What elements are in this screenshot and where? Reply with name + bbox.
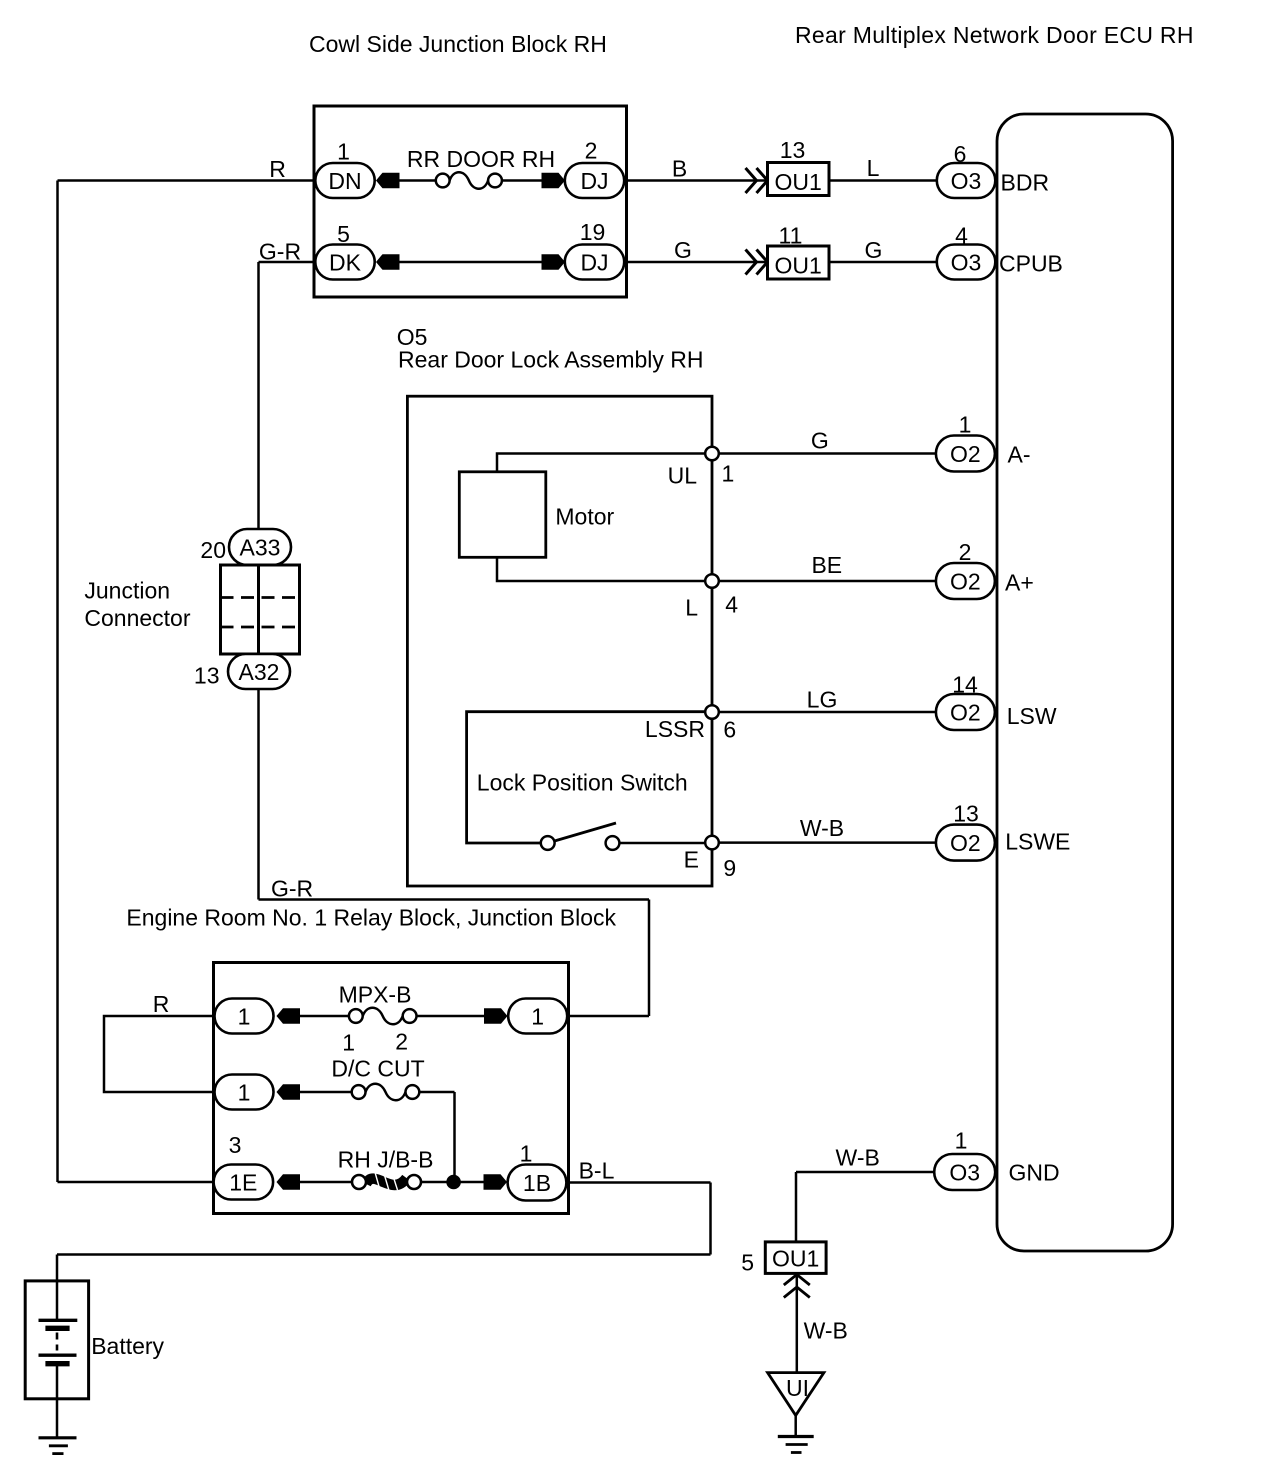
connector OU1 pin 5 box <box>765 1242 826 1274</box>
switch contact left <box>541 836 555 850</box>
label Engine Room No. 1 Relay Block, Junction Block <box>126 905 616 931</box>
label motor terminal UL <box>668 463 698 489</box>
wire G from OU1 to O3 pin 4 <box>829 261 937 264</box>
pin number 1 of DN <box>337 139 350 165</box>
svg-text:Engine Room No. 1 Relay Block,: Engine Room No. 1 Relay Block, Junction … <box>126 905 616 931</box>
wire B-L down to battery feed <box>709 1183 712 1255</box>
svg-text:13: 13 <box>194 663 220 689</box>
svg-text:W-B: W-B <box>800 815 844 841</box>
shield chevrons below OU1 <box>784 1275 810 1298</box>
connector DK pin 5 oval <box>315 245 374 280</box>
connector OU1 pin 11 box <box>768 246 830 279</box>
connector O3 pin 1 oval GND <box>934 1154 995 1190</box>
wire switch to node E <box>619 842 705 845</box>
wire R from connector DN to left rail <box>58 179 316 182</box>
svg-text:13: 13 <box>780 137 806 163</box>
label fuse D/C CUT <box>331 1056 424 1082</box>
ground below UI <box>778 1437 814 1453</box>
svg-text:O3: O3 <box>951 249 982 275</box>
label ECU terminal A- <box>1008 442 1031 468</box>
svg-text:1: 1 <box>531 1003 544 1029</box>
svg-text:1: 1 <box>238 1079 251 1105</box>
junction connector dashed divider upper <box>221 596 300 599</box>
arrowhead out of MPX-B <box>484 1008 508 1024</box>
label switch terminal LSSR <box>645 716 705 742</box>
svg-text:E: E <box>684 847 699 873</box>
svg-text:A33: A33 <box>240 534 281 560</box>
svg-text:L: L <box>867 155 880 181</box>
svg-text:G-R: G-R <box>271 876 313 902</box>
svg-text:BE: BE <box>811 552 842 578</box>
svg-text:5: 5 <box>741 1250 754 1276</box>
label ECU terminal BDR <box>1001 170 1050 196</box>
wire B-L from 1B <box>566 1181 710 1184</box>
svg-text:6: 6 <box>723 717 736 743</box>
label fuse MPX-B <box>339 982 412 1008</box>
pin number 9 at node <box>723 855 736 881</box>
svg-text:9: 9 <box>723 855 736 881</box>
node pin 1 of lock assembly <box>705 447 719 461</box>
svg-text:R: R <box>153 991 170 1017</box>
svg-text:1B: 1B <box>523 1170 551 1196</box>
wire DK to DJ pin 19 <box>397 261 544 264</box>
svg-text:LSSR: LSSR <box>645 716 705 742</box>
connector DJ pin 2 oval <box>565 163 624 198</box>
wire R left vertical rail <box>56 181 59 1183</box>
svg-text:Rear Multiplex Network Door EC: Rear Multiplex Network Door ECU RH <box>795 22 1194 48</box>
wire G-R across to relay block riser <box>259 898 650 901</box>
wire motor upper lead UL <box>497 454 712 473</box>
battery cell dashed link <box>56 1333 59 1351</box>
svg-text:RR DOOR RH: RR DOOR RH <box>407 146 555 172</box>
wire W-B from OU1 to O3 GND <box>796 1171 935 1174</box>
pin number 1 at node <box>722 461 735 487</box>
wire 1E to fusible link <box>298 1181 353 1184</box>
svg-text:BDR: BDR <box>1001 170 1050 196</box>
connector oval pin 1 of D-C CUT <box>215 1075 274 1110</box>
motor M1 body <box>459 472 546 558</box>
wire DN to fuse <box>397 179 436 182</box>
svg-text:OU1: OU1 <box>772 1246 819 1272</box>
ground below battery <box>39 1438 77 1454</box>
label wire color BE <box>811 552 842 578</box>
svg-text:Rear Door Lock Assembly RH: Rear Door Lock Assembly RH <box>398 347 704 373</box>
arrowhead into 1B <box>484 1174 508 1190</box>
svg-text:Lock Position Switch: Lock Position Switch <box>477 770 688 796</box>
svg-text:A-: A- <box>1008 442 1031 468</box>
connector O3 pin 4 oval <box>937 245 996 280</box>
wire G-R from A32 down <box>257 689 260 900</box>
wire G to O2 pin 1 <box>712 452 936 455</box>
svg-text:1: 1 <box>520 1141 533 1167</box>
svg-text:G: G <box>865 237 883 263</box>
svg-text:1: 1 <box>337 139 350 165</box>
svg-text:O2: O2 <box>950 699 981 725</box>
label Junction Connector line 2 <box>84 605 190 631</box>
arrowhead into DJ pin 2 <box>542 173 566 189</box>
pin number 13 of OU1 <box>780 137 806 163</box>
pin number 4 of O3 <box>955 223 968 249</box>
svg-text:G-R: G-R <box>259 239 301 265</box>
svg-text:W-B: W-B <box>836 1145 880 1171</box>
wire LG to O2 pin 14 <box>712 711 936 714</box>
wire W-B to O2 pin 13 <box>712 841 936 844</box>
label wire color LG <box>807 687 838 713</box>
svg-text:1: 1 <box>722 461 735 487</box>
block Rear Multiplex Network Door ECU RH outline <box>997 114 1173 1251</box>
pin number 5 of DK <box>337 221 350 247</box>
fuse MPX-B pin number 2 <box>395 1029 408 1055</box>
svg-text:3: 3 <box>229 1132 242 1158</box>
battery enclosure <box>25 1281 88 1399</box>
junction connector dashed divider lower <box>221 626 300 629</box>
svg-text:1: 1 <box>238 1003 251 1029</box>
svg-text:OU1: OU1 <box>775 253 822 279</box>
svg-text:1: 1 <box>955 1128 968 1154</box>
shield chevrons on wire G <box>746 250 768 275</box>
connector oval pin 1 left of MPX-B <box>215 999 274 1034</box>
label wire color W-B lower <box>804 1318 848 1344</box>
wire fuse D-C CUT to drop <box>419 1091 454 1094</box>
block Rear Door Lock Assembly RH outline <box>407 396 712 886</box>
pin number 2 of O2 <box>959 539 972 565</box>
wire G from DJ to shield chevrons <box>624 261 767 264</box>
wire R bottom run to 1E <box>58 1181 216 1184</box>
arrowhead into 1E <box>277 1174 301 1190</box>
connector O2 pin 2 oval <box>936 563 995 599</box>
label junction connector A32 pin 13 <box>194 663 220 689</box>
connector 1B pin 1 oval <box>508 1165 567 1201</box>
svg-text:14: 14 <box>952 672 978 698</box>
svg-text:11: 11 <box>779 223 803 249</box>
label fuse RR DOOR RH <box>407 146 555 172</box>
label Lock Position Switch <box>477 770 688 796</box>
svg-text:DN: DN <box>328 168 361 194</box>
battery plate short thick second <box>45 1361 69 1366</box>
svg-text:R: R <box>269 156 286 182</box>
label wire color G right <box>865 237 883 263</box>
svg-text:DJ: DJ <box>580 168 608 194</box>
connector O2 pin 1 oval <box>936 436 995 472</box>
pin number 5 of OU1 <box>741 1250 754 1276</box>
svg-text:DK: DK <box>329 249 362 275</box>
junction dot on B-L feed <box>446 1175 461 1190</box>
pin number 6 of O3 <box>954 141 967 167</box>
wire UI to earth <box>794 1415 797 1436</box>
wire junction dot to arrowhead <box>454 1181 486 1184</box>
label wire color B-L <box>579 1158 615 1184</box>
label motor terminal L <box>685 595 698 621</box>
wire B from DJ to shield chevrons <box>624 179 767 182</box>
svg-text:B: B <box>672 156 687 182</box>
svg-text:4: 4 <box>725 592 738 618</box>
svg-text:DJ: DJ <box>580 249 608 275</box>
svg-text:B-L: B-L <box>579 1158 615 1184</box>
arrowhead into MPX-B left pin <box>277 1008 301 1024</box>
label title Cowl Side Junction Block RH <box>309 31 607 57</box>
svg-text:1: 1 <box>959 412 972 438</box>
node pin 9 of lock assembly <box>705 836 719 850</box>
switch contact right <box>606 836 620 850</box>
svg-text:L: L <box>685 595 698 621</box>
label wire color R inside relay block <box>153 991 170 1017</box>
connector O3 pin 6 oval <box>937 163 996 198</box>
label wire color G-R <box>259 239 301 265</box>
wire motor lower lead L <box>497 557 712 582</box>
pin number 6 at node <box>723 717 736 743</box>
label switch terminal E <box>684 847 699 873</box>
battery plate long positive <box>39 1319 78 1322</box>
fusible link RH J/B-B band <box>366 1169 407 1191</box>
svg-text:4: 4 <box>955 223 968 249</box>
connector OU1 pin 13 box <box>768 163 830 196</box>
fusible link RH J/B-B left contact <box>352 1175 366 1189</box>
fuse D/C CUT <box>352 1084 420 1101</box>
label component code O5 <box>397 324 428 350</box>
svg-text:A32: A32 <box>239 659 280 685</box>
svg-text:UL: UL <box>668 463 698 489</box>
wire fusible link to junction dot <box>421 1181 450 1184</box>
arrowhead into DJ pin 19 <box>542 254 566 270</box>
shield chevrons on wire B <box>746 168 768 193</box>
svg-text:1: 1 <box>342 1030 355 1056</box>
svg-text:O2: O2 <box>950 830 981 856</box>
wire L from OU1 to O3 <box>829 179 937 182</box>
connector oval pin 1 right of MPX-B <box>508 999 567 1034</box>
label Rear Door Lock Assembly RH <box>398 347 704 373</box>
connector DJ pin 19 oval <box>565 245 624 280</box>
wire G-R from connector DK <box>259 261 316 264</box>
svg-text:Battery: Battery <box>91 1333 164 1359</box>
label wire color G on A- wire <box>811 428 829 454</box>
svg-text:5: 5 <box>337 221 350 247</box>
label Junction Connector line 1 <box>84 578 170 604</box>
switch lever <box>555 823 617 841</box>
label title Rear Multiplex Network Door ECU RH <box>795 22 1194 48</box>
svg-text:Cowl Side Junction Block RH: Cowl Side Junction Block RH <box>309 31 607 57</box>
svg-text:6: 6 <box>954 141 967 167</box>
pin number 14 of O2 <box>952 672 978 698</box>
ground triangle UI <box>768 1373 824 1416</box>
pin number 13 of O2 <box>953 801 979 827</box>
node pin 4 of lock assembly <box>705 574 719 588</box>
wire BE to O2 pin 2 <box>712 580 936 583</box>
svg-text:LSWE: LSWE <box>1005 829 1070 855</box>
svg-text:G: G <box>674 237 692 263</box>
fusible link RH J/B-B right contact <box>407 1175 421 1189</box>
label wire color L <box>867 155 880 181</box>
junction connector center line <box>257 565 260 654</box>
connector DN pin 1 oval <box>315 163 374 198</box>
label ECU terminal A+ <box>1005 570 1034 596</box>
label junction connector A33 pin 20 <box>200 537 226 563</box>
label ECU terminal GND <box>1009 1160 1060 1186</box>
wire G-R vertical to junction connector A33 <box>257 262 260 530</box>
label wire color B <box>672 156 687 182</box>
wire fuse MPX-B to arrowhead <box>417 1015 487 1018</box>
junction connector body <box>221 565 300 654</box>
node pin 6 of lock assembly <box>705 705 719 719</box>
block Engine Room No. 1 Relay Block outline <box>214 963 569 1214</box>
pin number 2 of DJ <box>585 138 598 164</box>
label ECU terminal CPUB <box>999 251 1063 277</box>
label wire color W-B upper <box>836 1145 880 1171</box>
connector A32 oval <box>228 654 290 689</box>
svg-text:O3: O3 <box>949 1159 980 1185</box>
fuse MPX-B <box>349 1008 417 1025</box>
svg-text:Motor: Motor <box>555 504 614 530</box>
svg-text:20: 20 <box>200 537 226 563</box>
label wire color G-R lower <box>271 876 313 902</box>
svg-text:MPX-B: MPX-B <box>339 982 412 1008</box>
svg-text:OU1: OU1 <box>775 169 822 195</box>
svg-text:13: 13 <box>953 801 979 827</box>
wire MPX-B output to riser <box>567 1015 650 1018</box>
svg-text:O2: O2 <box>950 568 981 594</box>
label Battery <box>91 1333 164 1359</box>
lock position switch enclosure <box>467 712 712 843</box>
svg-text:Connector: Connector <box>84 605 190 631</box>
svg-text:O3: O3 <box>951 168 982 194</box>
svg-text:D/C CUT: D/C CUT <box>331 1056 424 1082</box>
svg-text:O2: O2 <box>950 441 981 467</box>
pin number 1 of O3 GND <box>955 1128 968 1154</box>
wire fuse to arrowhead <box>502 179 544 182</box>
pin number 1 of 1B <box>520 1141 533 1167</box>
svg-text:19: 19 <box>580 219 606 245</box>
label wire color G left <box>674 237 692 263</box>
svg-text:2: 2 <box>959 539 972 565</box>
wire battery feed bottom run <box>57 1253 711 1256</box>
fuse RR DOOR RH <box>436 172 502 189</box>
pin number 19 of DJ <box>580 219 606 245</box>
battery negative lead <box>56 1364 59 1437</box>
arrowhead into DN <box>376 173 400 189</box>
label ECU terminal LSW <box>1007 703 1057 729</box>
wire W-B drop to OU1 pin 5 <box>795 1172 798 1242</box>
wire drop D-C CUT to RH J/B-B junction <box>453 1092 456 1182</box>
wire loop MPX-B to D-C CUT <box>104 1016 214 1092</box>
wire to fuse MPX-B <box>298 1015 350 1018</box>
svg-text:LG: LG <box>807 687 838 713</box>
label wire color R <box>269 156 286 182</box>
arrowhead into D-C CUT pin <box>277 1084 301 1100</box>
wire riser down to MPX-B output <box>648 900 651 1017</box>
wire battery positive lead <box>56 1255 59 1320</box>
arrowhead into DK <box>376 254 400 270</box>
svg-text:2: 2 <box>585 138 598 164</box>
connector 1E pin 3 oval <box>214 1165 274 1200</box>
wire to fuse D-C CUT <box>298 1091 352 1094</box>
label fusible link RH J/B-B <box>338 1147 434 1173</box>
svg-text:RH J/B-B: RH J/B-B <box>338 1147 434 1173</box>
svg-text:GND: GND <box>1009 1160 1060 1186</box>
fuse MPX-B pin number 1 <box>342 1030 355 1056</box>
pin number 4 at node <box>725 592 738 618</box>
connector O2 pin 14 oval <box>936 694 995 730</box>
svg-text:LSW: LSW <box>1007 703 1057 729</box>
svg-text:A+: A+ <box>1005 570 1034 596</box>
svg-text:CPUB: CPUB <box>999 251 1063 277</box>
connector A33 oval <box>229 529 291 565</box>
svg-text:2: 2 <box>395 1029 408 1055</box>
battery plate long second <box>39 1353 77 1356</box>
svg-text:UI: UI <box>786 1375 809 1401</box>
connector O2 pin 13 oval <box>936 825 995 861</box>
pin number 1 of O2 <box>959 412 972 438</box>
battery plate short thick <box>45 1326 69 1331</box>
svg-text:W-B: W-B <box>804 1318 848 1344</box>
wire W-B to ground UI <box>796 1273 799 1372</box>
label ECU terminal LSWE <box>1005 829 1070 855</box>
svg-text:G: G <box>811 428 829 454</box>
svg-text:Junction: Junction <box>84 578 170 604</box>
label Motor <box>555 504 614 530</box>
pin number 11 of OU1 <box>779 223 803 249</box>
svg-text:1E: 1E <box>229 1169 257 1195</box>
label wire color W-B on LSWE wire <box>800 815 844 841</box>
block Cowl Side Junction Block RH outline <box>314 106 627 297</box>
pin number 3 of 1E <box>229 1132 242 1158</box>
